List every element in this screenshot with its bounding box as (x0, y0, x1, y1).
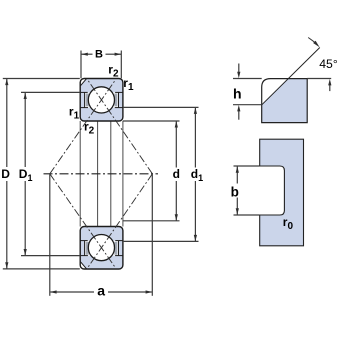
svg-text:b: b (231, 185, 239, 200)
svg-text:D: D (1, 167, 10, 181)
svg-text:a: a (97, 282, 105, 298)
svg-text:d: d (173, 167, 180, 181)
svg-text:h: h (233, 85, 242, 101)
svg-text:45°: 45° (319, 57, 338, 71)
svg-text:B: B (95, 48, 103, 60)
